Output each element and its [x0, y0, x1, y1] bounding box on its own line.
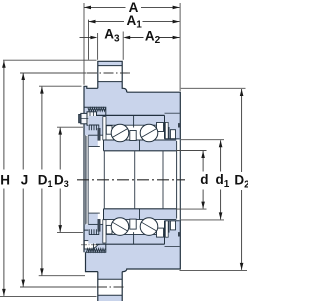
D1 arrows: [40, 87, 44, 94]
H bottom ext: [0, 296, 97, 298]
A arrows: [84, 6, 91, 10]
dim A3 tail left: [80, 37, 92, 39]
outline: bottom front face: [86, 252, 98, 271]
D2 arrows: [240, 89, 244, 96]
dim d1 line: [220, 140, 222, 219]
bottom lug hole edges: [98, 279, 122, 295]
white cut: bottom bolt lug hole: [98, 279, 122, 295]
housing silhouette (blue flanged body with bolt lugs): [84, 61, 180, 301]
outer ring split: [133, 115, 135, 127]
outline: pilot front face and flange top: [84, 86, 98, 252]
rear tick: [168, 127, 170, 139]
J arrows: [21, 73, 25, 80]
dim D1 line: [41, 87, 43, 276]
D2 exts: [181, 87, 246, 89]
top lug bolt axis: [87, 72, 131, 74]
A2 right arrow: [173, 36, 180, 40]
J bottom ext: [20, 286, 97, 288]
inner ring split: [139, 141, 141, 151]
cage piece right: [157, 123, 164, 132]
ext line A right: [179, 3, 181, 91]
dim A line: [84, 6, 180, 8]
d exts: [176, 150, 207, 152]
dim H line: [3, 61, 5, 296]
D3 top ext: [57, 126, 83, 128]
A3 arrows (outside): [90, 36, 97, 40]
seal carrier top (blue): [88, 135, 98, 147]
dim d line: [202, 151, 204, 209]
front white gap strip: [103, 117, 106, 140]
outline: bottom bolt lug: [98, 272, 122, 301]
ext line A left: [83, 3, 85, 85]
dim D3 line: [59, 128, 61, 233]
svg-text:d: d: [200, 172, 208, 187]
inner ring band: [104, 140, 177, 151]
dim A2 line: [129, 37, 180, 39]
d1 exts: [181, 139, 224, 141]
dim D2 line: [241, 89, 243, 270]
bottom plug cone tip: [94, 241, 99, 249]
rear seal: outer ring right face: [164, 115, 166, 138]
cage piece middle: [130, 131, 136, 141]
D1 bottom ext: [39, 275, 85, 277]
front seal bar: [98, 128, 101, 141]
outline: top bolt lug: [98, 61, 127, 92]
bore strip verticals (inner ring joints seen through bore): [104, 151, 163, 209]
bottom plug body: [84, 241, 93, 249]
white cut: bearing cavity: [96, 115, 164, 244]
white cut: rear collar strip: [176, 140, 180, 220]
main centerline: [77, 179, 185, 181]
H top ext: [3, 59, 97, 61]
d arrows: [201, 151, 205, 158]
rear white box: [170, 130, 175, 139]
ext line A3/A2: [97, 33, 99, 60]
arrowheads: [2, 6, 243, 296]
bottom pocket thread zigzag: [87, 249, 106, 252]
D1 top ext: [39, 85, 82, 87]
rear collar edges: [176, 141, 178, 219]
white cut: bore strip: [88, 147, 176, 214]
front seal comb: [89, 125, 99, 130]
ball 1: [111, 124, 129, 142]
top lug hole edges: [98, 66, 122, 296]
A1 arrows: [89, 20, 96, 24]
top pocket thread zigzag: [88, 108, 106, 111]
ext line A1/A3 left: [88, 20, 90, 60]
housing outline edges: [84, 61, 180, 301]
rear shoulder line: [165, 138, 180, 140]
seal carrier bottom (blue): [88, 213, 98, 225]
bottom plug axis: [81, 244, 100, 246]
rear groove line: [165, 112, 180, 114]
nipple mid line: [81, 117, 96, 119]
top pocket: ceiling edge: [84, 107, 106, 129]
grease nipple shaft: [81, 113, 87, 123]
white cut: top bolt lug hole: [98, 66, 122, 82]
D3 bottom ext: [57, 232, 83, 234]
grease nipple tip: [79, 114, 81, 122]
rear white strip: [165, 122, 168, 138]
dim A1 line: [89, 21, 180, 23]
d1 arrows: [219, 140, 223, 147]
bearing row (top), mirrored below: [88, 113, 181, 151]
snap ring notch: [178, 123, 181, 127]
svg-text:H: H: [0, 172, 10, 187]
ball 2: [140, 124, 158, 142]
outline: housing back bottom: [122, 220, 180, 272]
outline: housing back top face: [127, 92, 181, 140]
bottom pocket: edges: [84, 230, 106, 252]
svg-text:J: J: [21, 172, 29, 187]
D3 arrows: [58, 128, 62, 135]
front carrier block: [88, 116, 103, 135]
dim J line: [22, 73, 24, 287]
J top ext: [20, 72, 87, 74]
bottom lug bolt axis: [97, 286, 126, 288]
front slot vertical edge lines: [86, 135, 89, 224]
white cut: front slot: [85, 135, 89, 224]
H arrows: [2, 61, 6, 68]
grease nipple hex body: [87, 112, 97, 125]
cage piece left: [106, 126, 112, 135]
outer ring band (blue like housing): [96, 115, 165, 125]
